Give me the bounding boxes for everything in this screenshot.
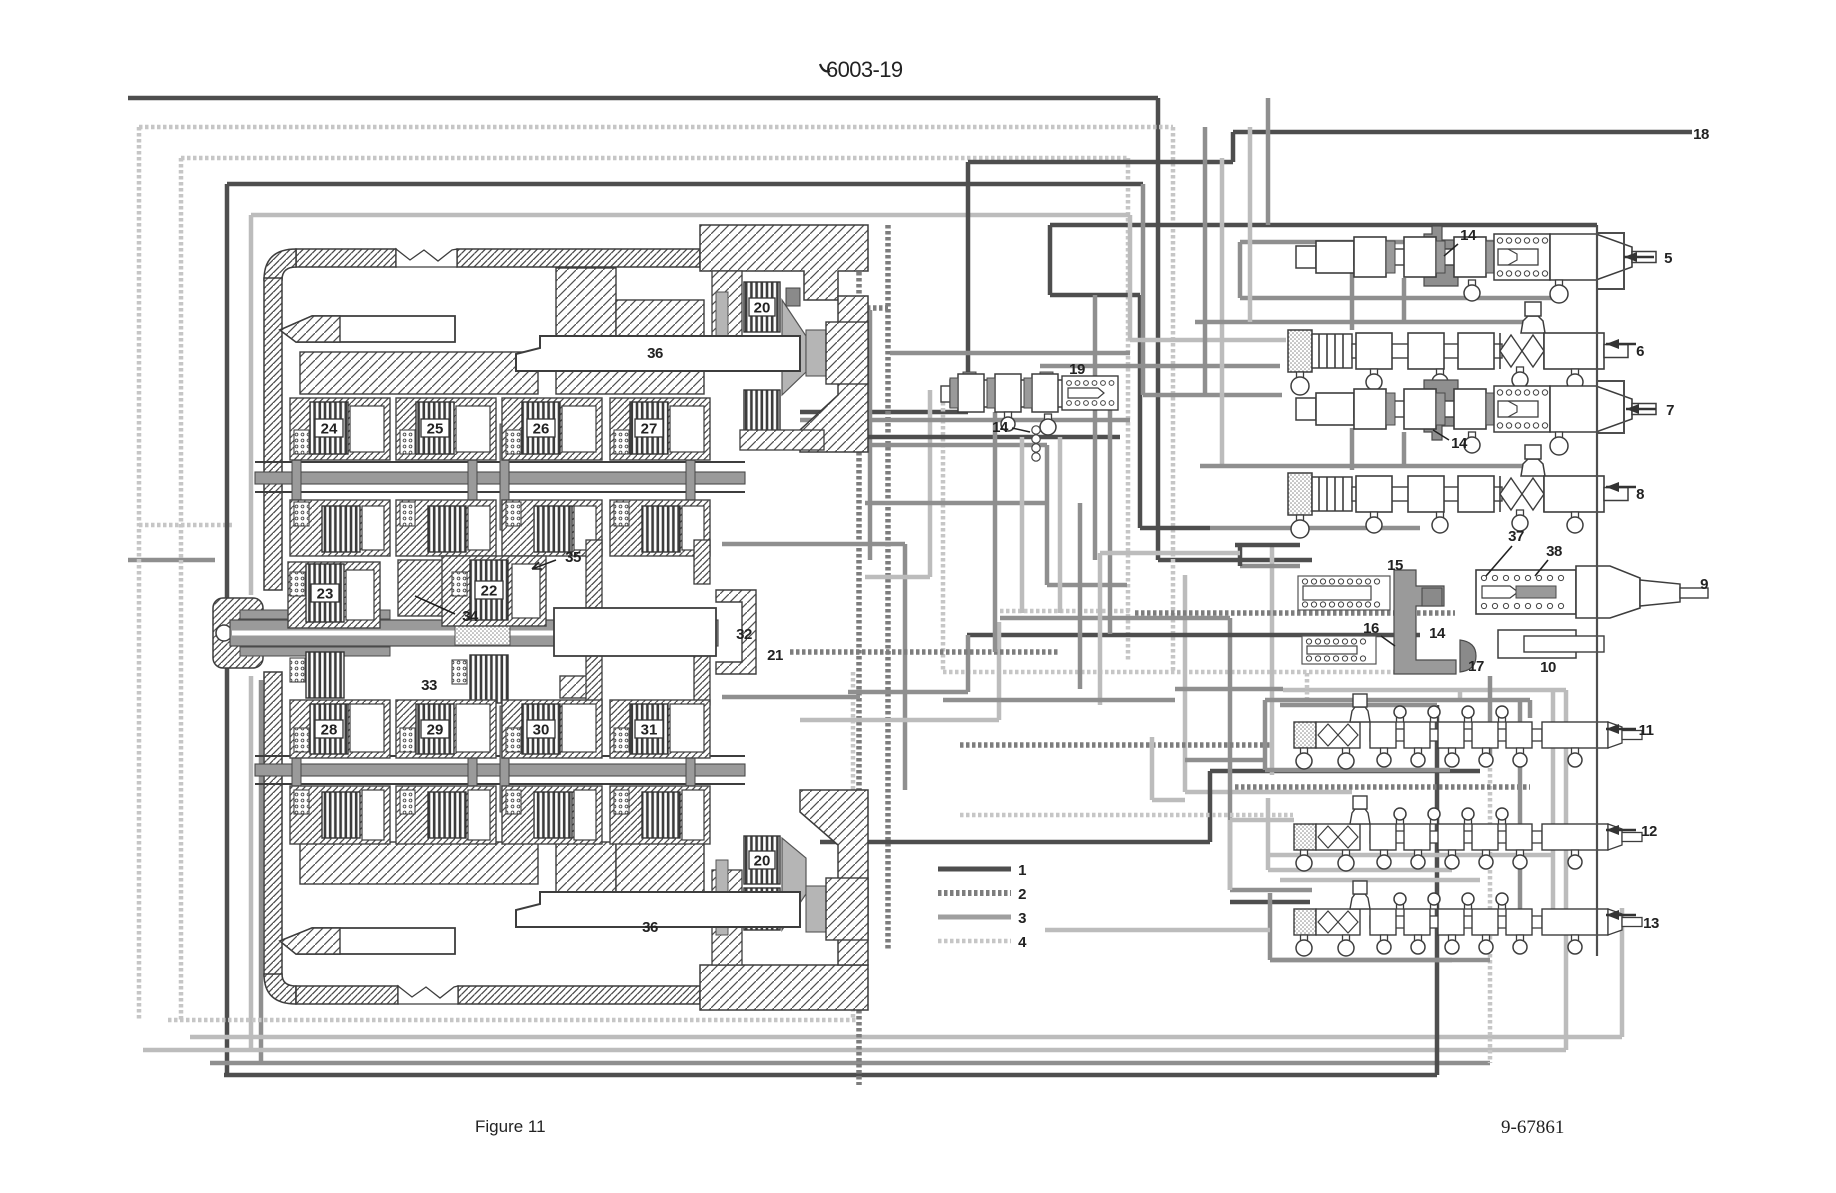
svg-text:33: 33 <box>421 677 437 694</box>
valve 7 <box>1296 380 1656 455</box>
wire feed valve 7 <box>1141 184 1146 395</box>
wire <box>1078 503 1083 689</box>
wire <box>1138 295 1143 528</box>
feed tube <box>686 424 695 530</box>
wire bottom dark <box>224 1073 1437 1078</box>
clutch 30 lower half <box>502 786 602 844</box>
wire <box>941 390 946 672</box>
arrow 13 <box>1606 910 1636 920</box>
clutch 30 <box>502 700 602 758</box>
wire <box>1093 295 1098 560</box>
clutch 23 <box>288 562 380 628</box>
feed tube <box>500 424 509 530</box>
svg-text:32: 32 <box>736 626 752 643</box>
clutch 25 lower half <box>396 500 496 556</box>
wire <box>1238 242 1243 298</box>
wire <box>1208 771 1213 842</box>
bell housing bottom <box>700 965 868 1010</box>
svg-text:5: 5 <box>1664 250 1672 267</box>
svg-text:3: 3 <box>1018 910 1026 927</box>
svg-text:29: 29 <box>427 722 444 739</box>
svg-text:26: 26 <box>533 421 550 438</box>
svg-text:15: 15 <box>1387 557 1403 574</box>
arrow 11 <box>1606 724 1636 734</box>
wire <box>1020 437 1025 613</box>
partition walls <box>586 540 602 608</box>
wire <box>943 670 1455 675</box>
wire <box>1350 428 1355 470</box>
wire bottom gray <box>210 1061 1490 1066</box>
output shaft 36 bottom <box>516 892 800 927</box>
wire <box>1108 390 1113 634</box>
leader <box>1444 244 1458 256</box>
clutch 27 <box>610 398 710 460</box>
wire <box>1240 240 1592 245</box>
wire <box>1045 928 1270 933</box>
valve 11 <box>1294 694 1642 769</box>
wire <box>1040 364 1280 369</box>
wire <box>1518 700 1523 842</box>
bell housing top <box>700 225 868 300</box>
legend line 4 <box>938 939 1011 944</box>
leader 16 <box>1381 636 1395 646</box>
svg-text:27: 27 <box>641 421 658 438</box>
wire <box>1050 293 1140 298</box>
wire <box>848 690 968 695</box>
clutch 27 lower half <box>610 500 710 556</box>
wire <box>968 160 1233 165</box>
output shaft 36 top <box>516 336 800 371</box>
wire <box>1265 768 1450 773</box>
wire <box>903 544 908 790</box>
housing left band <box>264 249 296 280</box>
wire <box>1143 393 1282 398</box>
leader 38 <box>1535 560 1548 576</box>
wire <box>1203 127 1208 395</box>
clutch 20 top lower pack <box>744 390 780 436</box>
drum between 23 and 22 <box>398 560 444 616</box>
wire <box>249 215 254 595</box>
wire <box>1280 703 1437 708</box>
clutch 31 lower half <box>610 786 710 844</box>
wire <box>1458 690 1463 700</box>
wire <box>1210 526 1420 531</box>
wire <box>137 127 142 1020</box>
svg-text:1: 1 <box>1018 862 1026 879</box>
wire <box>1185 790 1352 795</box>
wire <box>865 443 1047 448</box>
wire <box>722 695 860 700</box>
wire <box>1000 609 1130 614</box>
clutch 28 lower half <box>290 786 390 844</box>
wire <box>1240 296 1560 301</box>
wire clutch 20 feed <box>800 410 968 415</box>
wire bottom light a <box>190 1035 1622 1040</box>
wire <box>1140 526 1210 531</box>
wire <box>1402 278 1407 322</box>
wire <box>1050 223 1597 228</box>
wire supply line 1 <box>128 96 1158 101</box>
wire <box>1283 688 1566 693</box>
arrow 5 <box>1624 252 1654 262</box>
wire <box>1175 687 1283 692</box>
wire <box>1435 705 1440 1075</box>
svg-text:22: 22 <box>481 583 498 600</box>
arrow 8 <box>1606 482 1636 492</box>
svg-text:20: 20 <box>754 853 771 870</box>
transmission housing top band <box>296 249 396 267</box>
wire <box>865 575 930 580</box>
ball chain 14 <box>1032 426 1040 434</box>
valve 5 <box>1296 226 1656 303</box>
wire checkered b <box>885 225 891 950</box>
wire <box>1564 690 1569 1050</box>
valve 13 <box>1294 881 1642 956</box>
valve 19 <box>941 372 1118 461</box>
wire <box>259 680 264 1063</box>
clutch 20 bottom <box>744 836 780 884</box>
wire <box>1058 437 1063 613</box>
shaft 32 <box>554 608 716 656</box>
wire <box>1047 583 1127 588</box>
wire <box>967 633 1420 638</box>
valve 38 body <box>1476 570 1576 614</box>
clutch 20 top <box>744 282 780 332</box>
clutch 29 lower half <box>396 786 496 844</box>
wire <box>1185 758 1265 763</box>
legend line 1 <box>938 867 1011 872</box>
wire <box>225 184 230 1075</box>
lower drum hatch <box>300 842 538 884</box>
svg-text:35: 35 <box>565 549 581 566</box>
svg-text:36: 36 <box>642 919 658 936</box>
wire <box>1488 762 1493 1063</box>
wire <box>993 412 998 652</box>
wire <box>960 813 1293 818</box>
wire <box>1152 798 1185 803</box>
svg-text:8: 8 <box>1636 486 1644 503</box>
wire <box>1266 98 1271 225</box>
wire <box>1350 270 1355 330</box>
wire <box>851 672 856 1020</box>
wire <box>800 718 999 723</box>
svg-text:14: 14 <box>1460 227 1477 244</box>
leader 34 <box>415 596 455 614</box>
wire <box>865 501 1045 506</box>
wire <box>1150 737 1155 800</box>
clutch 23 lower pack <box>306 652 344 698</box>
wire <box>1130 338 1286 343</box>
wire <box>1158 558 1312 563</box>
wire <box>1228 618 1233 890</box>
svg-text:6: 6 <box>1636 343 1644 360</box>
wire lube line 4b <box>181 156 1128 161</box>
svg-text:17: 17 <box>1468 658 1484 675</box>
svg-text:19: 19 <box>1069 361 1085 378</box>
svg-text:4: 4 <box>1018 934 1027 951</box>
svg-text:31: 31 <box>641 722 658 739</box>
svg-text:10: 10 <box>1540 659 1556 676</box>
clutch 22 <box>442 556 546 626</box>
wire <box>1270 545 1275 775</box>
svg-text:34: 34 <box>462 608 479 625</box>
wire line 21 <box>790 649 1060 655</box>
wire <box>1551 690 1556 920</box>
wire <box>890 351 1130 356</box>
arrow 6 <box>1606 339 1636 349</box>
clutch 25 <box>396 398 496 460</box>
feed tube <box>292 424 301 530</box>
shaft 32 flange <box>716 590 756 674</box>
wire <box>1263 700 1268 770</box>
wire <box>1183 575 1188 792</box>
wire <box>1000 616 1230 621</box>
wire line 3a <box>251 213 1130 218</box>
svg-text:20: 20 <box>754 300 771 317</box>
input hub <box>213 598 263 668</box>
wire <box>1231 132 1236 162</box>
clutch 22 lower pack <box>470 655 508 703</box>
svg-text:9-67861: 9-67861 <box>1501 1117 1564 1138</box>
shaft center <box>230 620 718 646</box>
clutch 20 bottom lower pack <box>744 888 780 930</box>
legend line 2 <box>938 890 1011 896</box>
wire lube line 4 <box>139 125 1173 130</box>
valve 8 <box>1288 445 1628 538</box>
wire <box>1230 888 1312 893</box>
valve 6 <box>1288 302 1628 395</box>
wire <box>179 158 184 1020</box>
legend line 3 <box>938 915 1011 920</box>
wire <box>997 622 1002 720</box>
housing break jagged top <box>396 249 457 267</box>
wire <box>1235 784 1530 790</box>
wire <box>1230 818 1294 823</box>
svg-text:14: 14 <box>1429 625 1446 642</box>
wire <box>1156 98 1161 560</box>
svg-text:25: 25 <box>427 421 444 438</box>
wire <box>1171 127 1176 672</box>
output fork top <box>280 316 455 342</box>
wire <box>966 162 971 412</box>
wire <box>800 418 1130 423</box>
wire <box>1240 564 1300 569</box>
svg-text:24: 24 <box>321 421 338 438</box>
clutch 31 <box>610 700 710 758</box>
svg-text:7: 7 <box>1666 402 1674 419</box>
shaft lower <box>255 755 745 757</box>
wire feed valve 6 <box>1128 215 1133 340</box>
leader <box>1433 430 1449 440</box>
output fork bottom <box>280 928 455 954</box>
svg-text:12: 12 <box>1641 823 1657 840</box>
svg-text:28: 28 <box>321 722 338 739</box>
wire <box>139 523 232 528</box>
wire <box>1100 551 1240 556</box>
wire <box>1528 700 1533 718</box>
leader 35 <box>532 560 556 569</box>
wire <box>1135 610 1455 616</box>
wire <box>1230 900 1310 905</box>
wire <box>1235 543 1300 548</box>
wire <box>1098 553 1103 705</box>
clutch 24 <box>290 398 390 460</box>
wire <box>1265 698 1530 703</box>
wire <box>722 542 905 547</box>
wire <box>1268 893 1273 960</box>
housing bottom band <box>296 986 398 1004</box>
clutch 26 <box>502 398 602 460</box>
leader <box>1012 428 1030 432</box>
wire bottom dotted <box>168 1018 856 1023</box>
wire <box>128 558 215 563</box>
wire <box>1248 127 1253 322</box>
wire <box>1270 958 1452 963</box>
upper drum hatch <box>300 352 538 394</box>
wire <box>748 435 1120 440</box>
svg-text:38: 38 <box>1546 543 1562 560</box>
wire <box>1518 842 1523 940</box>
svg-text:21: 21 <box>767 647 783 664</box>
wire clutch 20 bottom feed <box>820 840 1210 845</box>
clutch 28 <box>290 700 390 758</box>
feed tube <box>292 706 301 812</box>
wire <box>1220 158 1225 466</box>
wire <box>1200 464 1526 469</box>
clutch 24 lower half <box>290 500 390 556</box>
wire <box>1620 908 1625 1037</box>
svg-text:23: 23 <box>317 586 334 603</box>
valve 10 <box>1498 630 1576 658</box>
svg-text:18: 18 <box>1693 126 1709 143</box>
svg-text:13: 13 <box>1643 915 1659 932</box>
feed tube <box>468 424 477 530</box>
wire <box>1210 769 1480 774</box>
feed tube <box>500 706 509 812</box>
wire <box>1270 853 1553 858</box>
wire converter checkered <box>856 248 862 1085</box>
svg-text:11: 11 <box>1639 722 1654 739</box>
wire <box>1266 798 1271 870</box>
svg-text:2: 2 <box>1018 886 1026 903</box>
wire <box>928 390 933 577</box>
wire line 18 <box>1233 130 1692 135</box>
svg-text:14: 14 <box>992 419 1009 436</box>
wire <box>1488 676 1493 762</box>
clutch 29 <box>396 700 496 758</box>
wire checkered mid <box>960 742 1270 748</box>
right frame line <box>1596 225 1598 956</box>
wire <box>249 676 254 1050</box>
wire <box>1268 868 1452 873</box>
wire <box>1402 432 1407 466</box>
feed tube <box>468 706 477 812</box>
wire main line 1b <box>227 182 1143 187</box>
valve 12 <box>1294 796 1642 871</box>
wire <box>1195 320 1526 325</box>
svg-text:16: 16 <box>1363 620 1379 637</box>
wire <box>1126 158 1131 660</box>
wire <box>1045 445 1050 585</box>
svg-text:30: 30 <box>533 722 550 739</box>
feed tube <box>686 706 695 812</box>
svg-text:Figure 11: Figure 11 <box>475 1117 546 1136</box>
spring box 15 <box>1298 576 1390 610</box>
shaft upper <box>255 461 745 463</box>
svg-text:14: 14 <box>1451 435 1468 452</box>
svg-text:37: 37 <box>1508 528 1524 545</box>
wire <box>1305 673 1310 700</box>
wire <box>1270 958 1490 963</box>
wire <box>1238 545 1243 566</box>
manifold 14/17 <box>1394 570 1456 674</box>
arrow 12 <box>1606 825 1636 835</box>
spring 16 <box>1302 636 1376 664</box>
svg-text:9: 9 <box>1700 576 1708 593</box>
leader 37 <box>1486 546 1512 576</box>
wire <box>868 310 873 560</box>
wire bottom light b <box>143 1048 1566 1053</box>
arrow 7 <box>1626 404 1656 414</box>
wire <box>722 245 859 251</box>
clutch 26 lower half <box>502 500 602 556</box>
svg-text:36: 36 <box>647 345 663 362</box>
wire <box>1228 820 1233 890</box>
wire <box>1048 225 1053 295</box>
wire <box>855 305 888 311</box>
wire <box>1280 878 1480 883</box>
svg-text:6003-19: 6003-19 <box>826 57 903 82</box>
drum below 33 <box>560 676 600 698</box>
wire <box>966 635 971 692</box>
converter out 9 <box>1576 566 1640 618</box>
wire <box>943 698 1175 703</box>
